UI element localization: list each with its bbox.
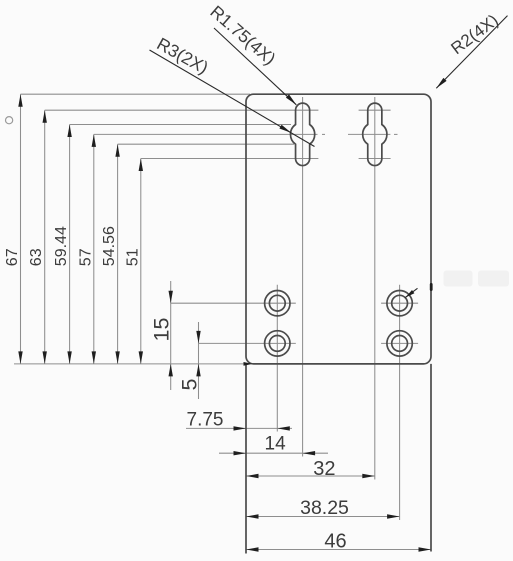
svg-text:32: 32 [313,458,335,480]
svg-text:15: 15 [150,318,174,342]
svg-text:7.75: 7.75 [187,410,224,431]
svg-text:38.25: 38.25 [300,497,349,519]
svg-text:51: 51 [124,248,141,266]
svg-text:59.44: 59.44 [53,226,70,266]
svg-text:63: 63 [28,248,45,266]
svg-text:67: 67 [4,248,21,266]
svg-text:54.56: 54.56 [101,226,118,266]
svg-text:46: 46 [324,530,346,552]
svg-text:5: 5 [178,379,202,391]
svg-text:14: 14 [265,433,287,454]
svg-text:57: 57 [77,248,94,266]
